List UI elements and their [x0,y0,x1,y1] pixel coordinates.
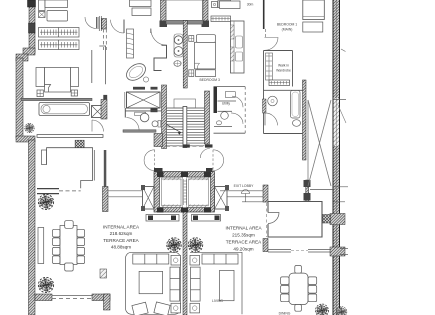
svg-text:49.20sqm: 49.20sqm [233,247,253,252]
svg-text:BEDROOM 3: BEDROOM 3 [200,78,220,82]
svg-text:30m: 30m [247,3,254,7]
svg-text:BEDROOM 1: BEDROOM 1 [277,23,297,27]
svg-text:TERRACE AREA: TERRACE AREA [226,240,262,245]
svg-text:(MAIN): (MAIN) [282,28,293,32]
svg-text:TERRACE AREA: TERRACE AREA [103,238,139,243]
svg-text:INTERNAL AREA: INTERNAL AREA [103,225,140,230]
svg-text:Walk in: Walk in [278,64,289,68]
svg-text:LIVING: LIVING [212,299,223,303]
svg-text:48.88sqm: 48.88sqm [111,245,131,250]
svg-text:Utility: Utility [222,102,231,106]
svg-text:Wardrobe: Wardrobe [276,69,291,73]
svg-text:215.35sqm: 215.35sqm [232,233,255,238]
svg-text:INTERNAL AREA: INTERNAL AREA [225,226,262,231]
svg-text:DINING: DINING [279,312,291,315]
svg-text:EXIT LOBBY: EXIT LOBBY [234,184,254,188]
svg-text:218.62sqm: 218.62sqm [110,231,133,236]
